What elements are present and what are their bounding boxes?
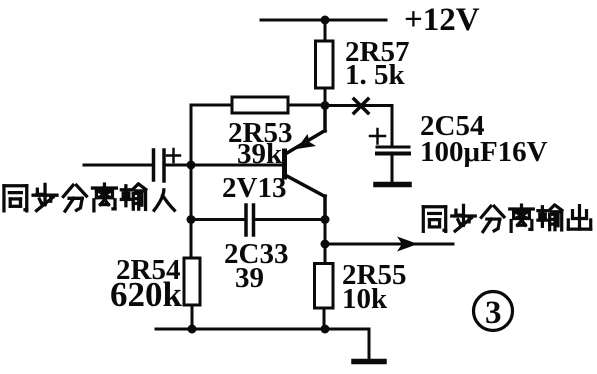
wire cap to bus [166,164,191,167]
wire R53 to left bus [191,105,232,258]
svg-text:620k: 620k [110,275,183,314]
capacitor input [152,150,156,180]
transistor emitter arrow [297,134,317,149]
node rail right [321,325,330,334]
transistor 2V13 emitter [287,106,325,153]
ground main [368,329,371,360]
svg-text:+12V: +12V [404,2,480,38]
capacitor 2C54 [377,146,409,149]
node C33 left [187,215,196,224]
wire R55 to rail [323,308,326,329]
wire rail to R57 [324,20,327,41]
resistor 2R54 [184,258,200,305]
node input junction [187,161,196,170]
wire node to C54 [325,106,392,148]
node top rail junction [321,16,330,25]
wire input [84,164,152,167]
svg-text:100μF16V: 100μF16V [420,136,548,168]
capacitor C54 plus sign [370,129,385,144]
wire base [191,164,283,167]
svg-text:2V13: 2V13 [222,172,286,204]
wire R54 to rail [191,305,194,329]
node emitter junction [321,215,330,224]
wire R57 to node [324,88,327,106]
label input CJK 同步分离输入 [4,184,174,211]
label output CJK 同步分离输出 [423,205,590,232]
node rail left [188,325,197,334]
resistor 2R53 [232,97,288,113]
capacitor 2C33 [246,205,254,235]
wire C33 right [256,218,325,221]
resistor 2R57 [316,41,334,88]
svg-text:3: 3 [485,295,502,331]
transistor 2V13 collector [287,176,325,220]
test point X [354,99,368,113]
wire bottom rail [156,328,369,331]
ground C54 [376,182,409,188]
svg-text:39k: 39k [237,138,283,170]
resistor 2R55 [315,264,334,309]
wire top +12V rail [261,19,386,22]
output arrow [397,237,418,252]
svg-text:1. 5k: 1. 5k [345,59,406,91]
wire output [325,243,453,246]
figure number circle 3 [474,292,513,331]
node collector junction [321,101,330,110]
node output junction [321,240,330,249]
svg-text:10k: 10k [342,283,388,315]
wire emitter to R55 [324,220,327,263]
svg-text:39: 39 [235,262,264,294]
transistor 2V13 base bar [282,151,287,177]
wire C33 row [191,218,243,221]
wire node to R53 [288,104,325,107]
